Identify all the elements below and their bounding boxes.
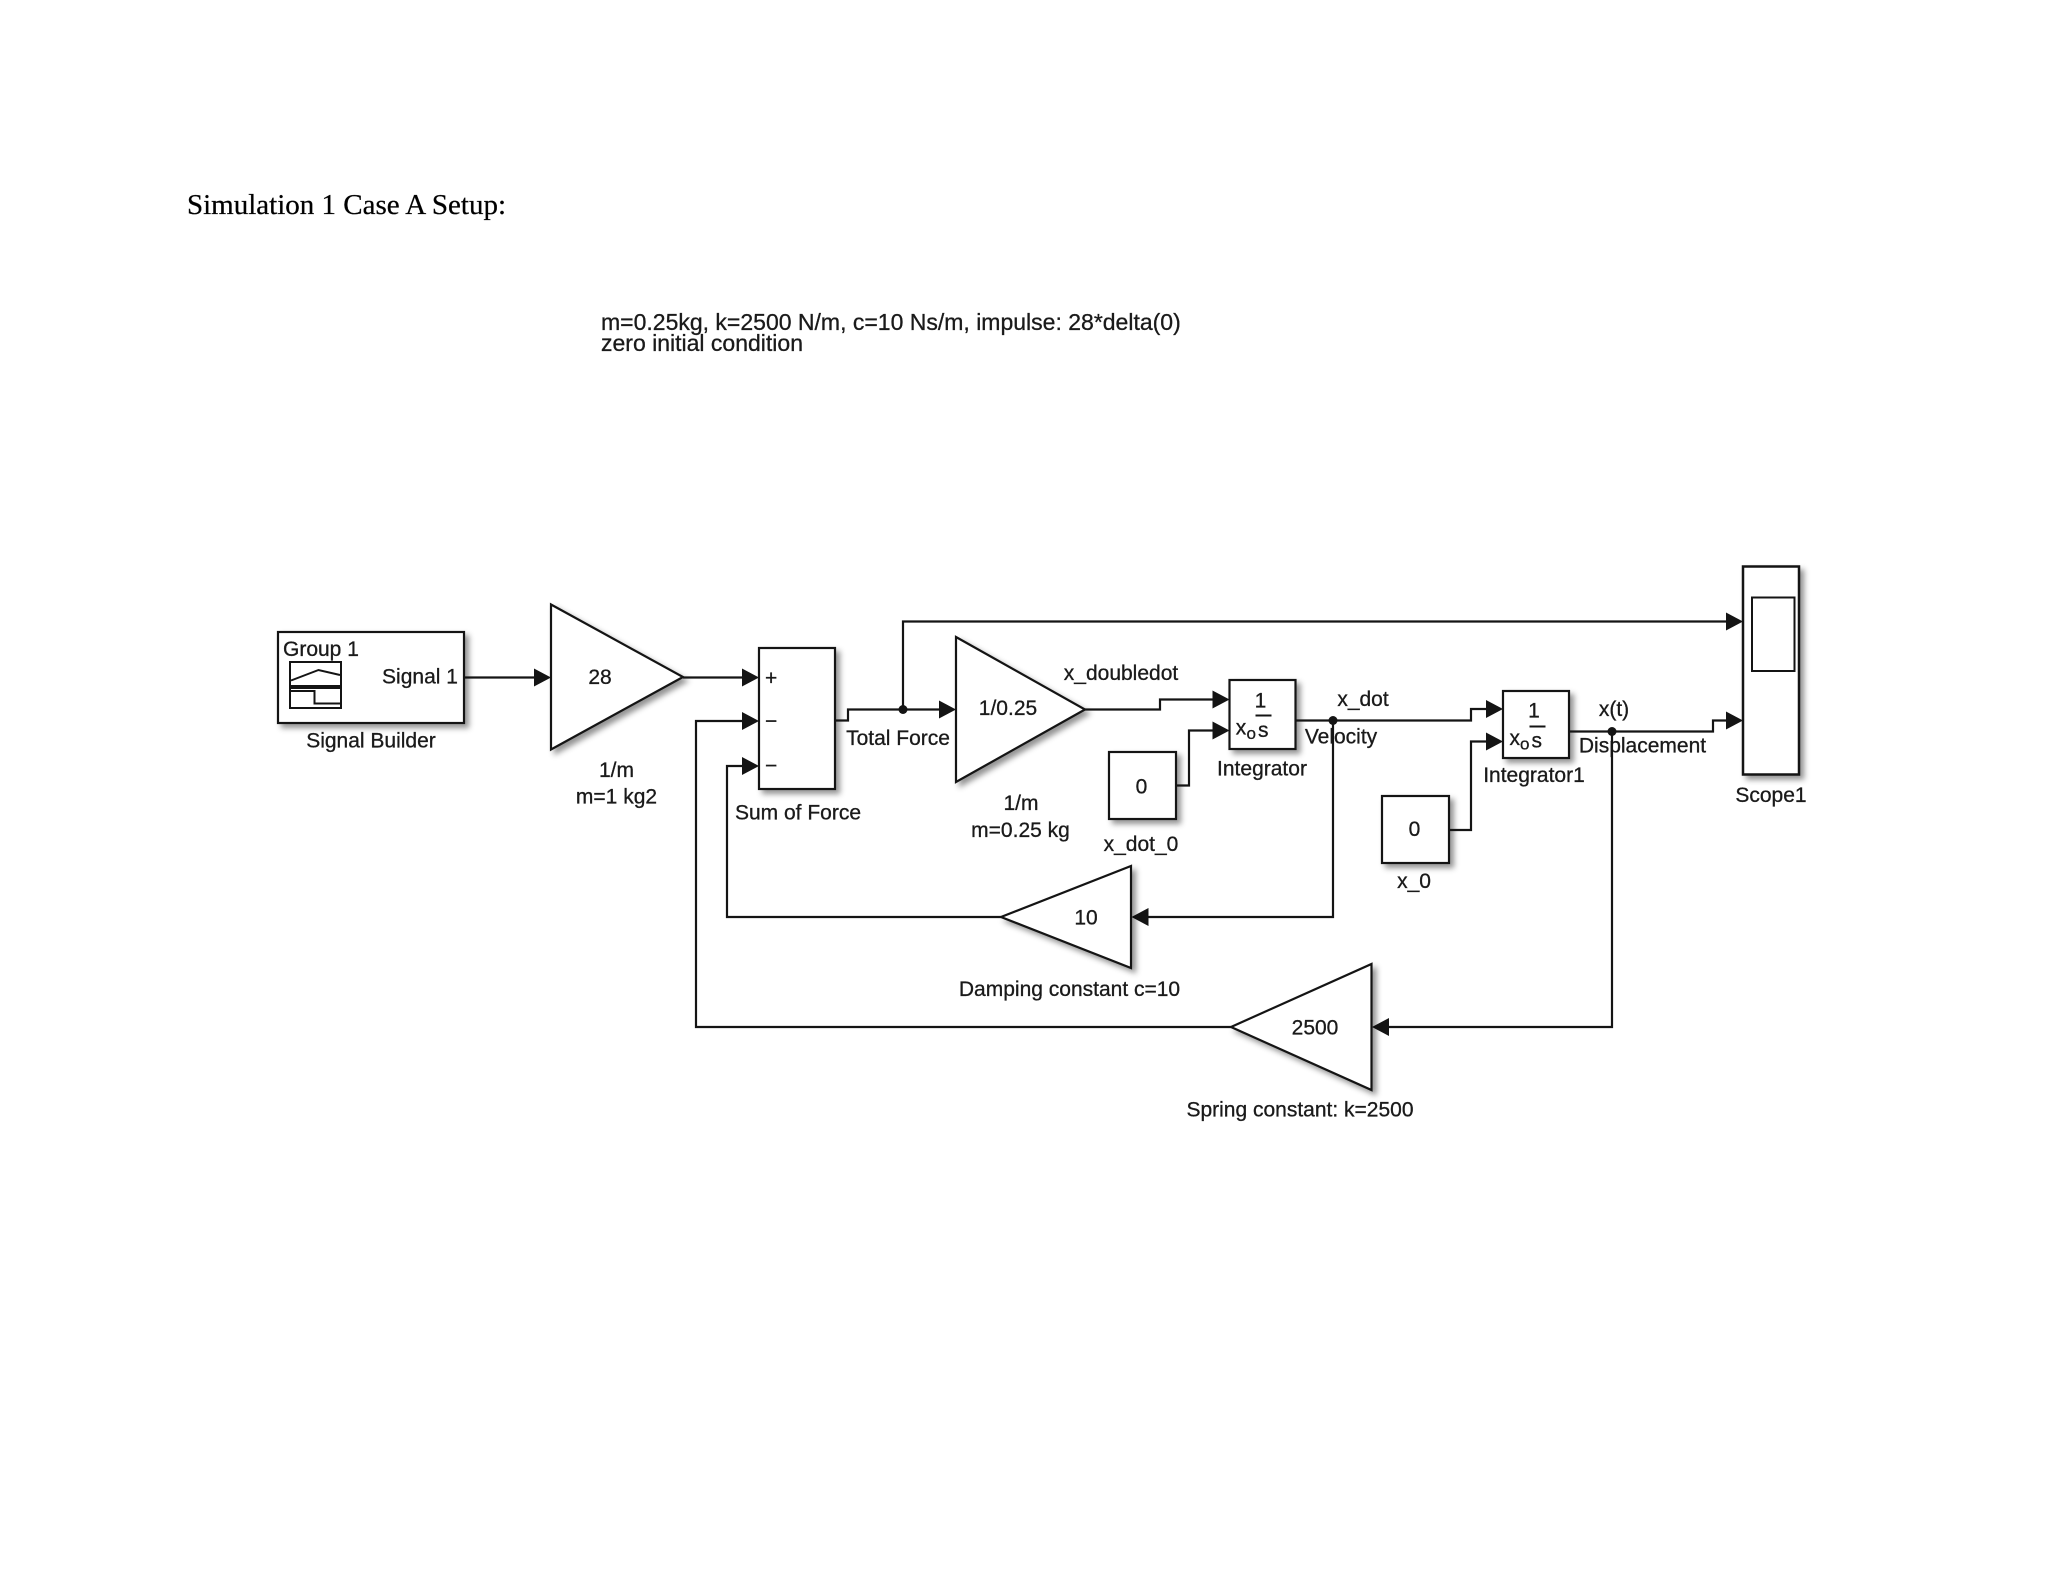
svg-text:1/m: 1/m xyxy=(1003,792,1038,815)
svg-text:Signal 1: Signal 1 xyxy=(382,666,458,689)
wire damping gain to Sum input 3 xyxy=(727,757,1001,917)
svg-text:28: 28 xyxy=(588,666,611,689)
node Displacement junction xyxy=(1608,727,1617,736)
constant x_0 xyxy=(1382,796,1449,863)
svg-text:−: − xyxy=(765,755,777,778)
label Damping constant c=10 xyxy=(959,978,1180,1001)
svg-text:x_dot_0: x_dot_0 xyxy=(1104,833,1179,856)
svg-text:−: − xyxy=(765,710,777,733)
gain 28 (1/m m=1 kg2) xyxy=(551,605,683,750)
wire Total Force junction to Scope1 input 1 xyxy=(903,613,1743,710)
svg-text:x_doubledot: x_doubledot xyxy=(1064,662,1179,685)
svg-text:x: x xyxy=(1510,727,1521,750)
svg-text:1: 1 xyxy=(1528,700,1540,723)
wire Gain 1/0.25 to Integrator input (x_doubledot) xyxy=(1085,691,1230,710)
label gain 28 xyxy=(576,759,657,809)
annotation parameters note xyxy=(601,309,1181,356)
wire Integrator1 to Scope1 input 2 (x(t)) xyxy=(1569,712,1743,732)
svg-text:Integrator1: Integrator1 xyxy=(1483,764,1585,787)
svg-text:0: 0 xyxy=(1409,818,1421,841)
block Integrator xyxy=(1230,680,1296,749)
block Integrator1 xyxy=(1503,691,1569,758)
svg-text:zero initial condition: zero initial condition xyxy=(601,330,803,356)
svg-text:1/m: 1/m xyxy=(599,759,634,782)
svg-text:m=0.25 kg: m=0.25 kg xyxy=(971,819,1070,842)
svg-text:10: 10 xyxy=(1074,907,1097,930)
node Total Force junction xyxy=(899,705,908,714)
label x_dot xyxy=(1337,688,1389,711)
label Velocity xyxy=(1305,726,1378,749)
block Scope1 xyxy=(1743,567,1799,775)
wire Velocity junction down to damping gain xyxy=(1132,721,1334,927)
label gain 1/0.25 xyxy=(971,792,1070,842)
svg-text:Damping constant c=10: Damping constant c=10 xyxy=(959,978,1180,1001)
svg-text:s: s xyxy=(1258,719,1269,742)
wire Sum output to Gain 1/0.25 (Total Force) xyxy=(835,701,956,721)
svg-text:1/0.25: 1/0.25 xyxy=(979,697,1037,720)
svg-text:Scope1: Scope1 xyxy=(1735,784,1806,807)
svg-text:Spring constant: k=2500: Spring constant: k=2500 xyxy=(1186,1099,1413,1122)
svg-text:1: 1 xyxy=(1255,690,1267,713)
label Sum of Force xyxy=(735,802,861,825)
svg-text:x_0: x_0 xyxy=(1397,870,1431,893)
svg-text:s: s xyxy=(1532,730,1543,753)
svg-text:x(t): x(t) xyxy=(1599,698,1629,721)
svg-text:Integrator: Integrator xyxy=(1217,758,1307,781)
svg-text:Total Force: Total Force xyxy=(846,727,950,750)
title text xyxy=(187,189,506,221)
svg-text:Displacement: Displacement xyxy=(1579,735,1706,758)
label x_0 xyxy=(1397,870,1431,893)
svg-text:x_dot: x_dot xyxy=(1337,688,1389,711)
label Integrator1 xyxy=(1483,764,1585,787)
svg-text:Sum of Force: Sum of Force xyxy=(735,802,861,825)
svg-text:0: 0 xyxy=(1136,776,1148,799)
label x(t) xyxy=(1599,698,1629,721)
label Scope1 xyxy=(1735,784,1806,807)
gain 1/0.25 (1/m m=0.25 kg) xyxy=(956,637,1085,782)
label Displacement xyxy=(1579,735,1706,758)
label x_doubledot xyxy=(1064,662,1179,685)
node Velocity junction xyxy=(1329,716,1338,725)
wire x_0 to Integrator1 IC input xyxy=(1449,733,1503,831)
label x_dot_0 xyxy=(1104,833,1179,856)
svg-text:m=1 kg2: m=1 kg2 xyxy=(576,786,657,809)
gain 2500 spring (left pointing) xyxy=(1231,964,1372,1090)
svg-text:x: x xyxy=(1236,717,1247,740)
label Spring constant k=2500 xyxy=(1186,1099,1413,1122)
wire Integrator to Integrator1 (x_dot) xyxy=(1296,700,1504,721)
gain 10 damping (left pointing) xyxy=(1001,866,1131,968)
wire Gain 28 to Sum of Force input 1 xyxy=(683,669,759,687)
label Integrator xyxy=(1217,758,1307,781)
label Total Force xyxy=(846,727,950,750)
svg-text:Velocity: Velocity xyxy=(1305,726,1378,749)
wire Signal Builder to Gain 28 xyxy=(464,669,551,687)
svg-text:o: o xyxy=(1247,724,1256,743)
svg-text:Signal Builder: Signal Builder xyxy=(306,730,436,753)
block Sum of Force xyxy=(759,648,835,789)
svg-text:Group 1: Group 1 xyxy=(283,638,359,661)
svg-text:+: + xyxy=(765,667,777,690)
block Signal Builder xyxy=(278,632,464,723)
wire spring gain to Sum input 2 xyxy=(696,712,1231,1027)
svg-text:Simulation 1 Case A Setup:: Simulation 1 Case A Setup: xyxy=(187,189,506,221)
svg-text:2500: 2500 xyxy=(1292,1017,1339,1040)
constant x_dot_0 xyxy=(1109,752,1176,819)
label Signal Builder xyxy=(306,730,436,753)
wire x_dot_0 to Integrator IC input xyxy=(1176,722,1230,786)
svg-text:o: o xyxy=(1520,735,1529,754)
wire Displacement junction down to spring gain xyxy=(1372,732,1612,1037)
